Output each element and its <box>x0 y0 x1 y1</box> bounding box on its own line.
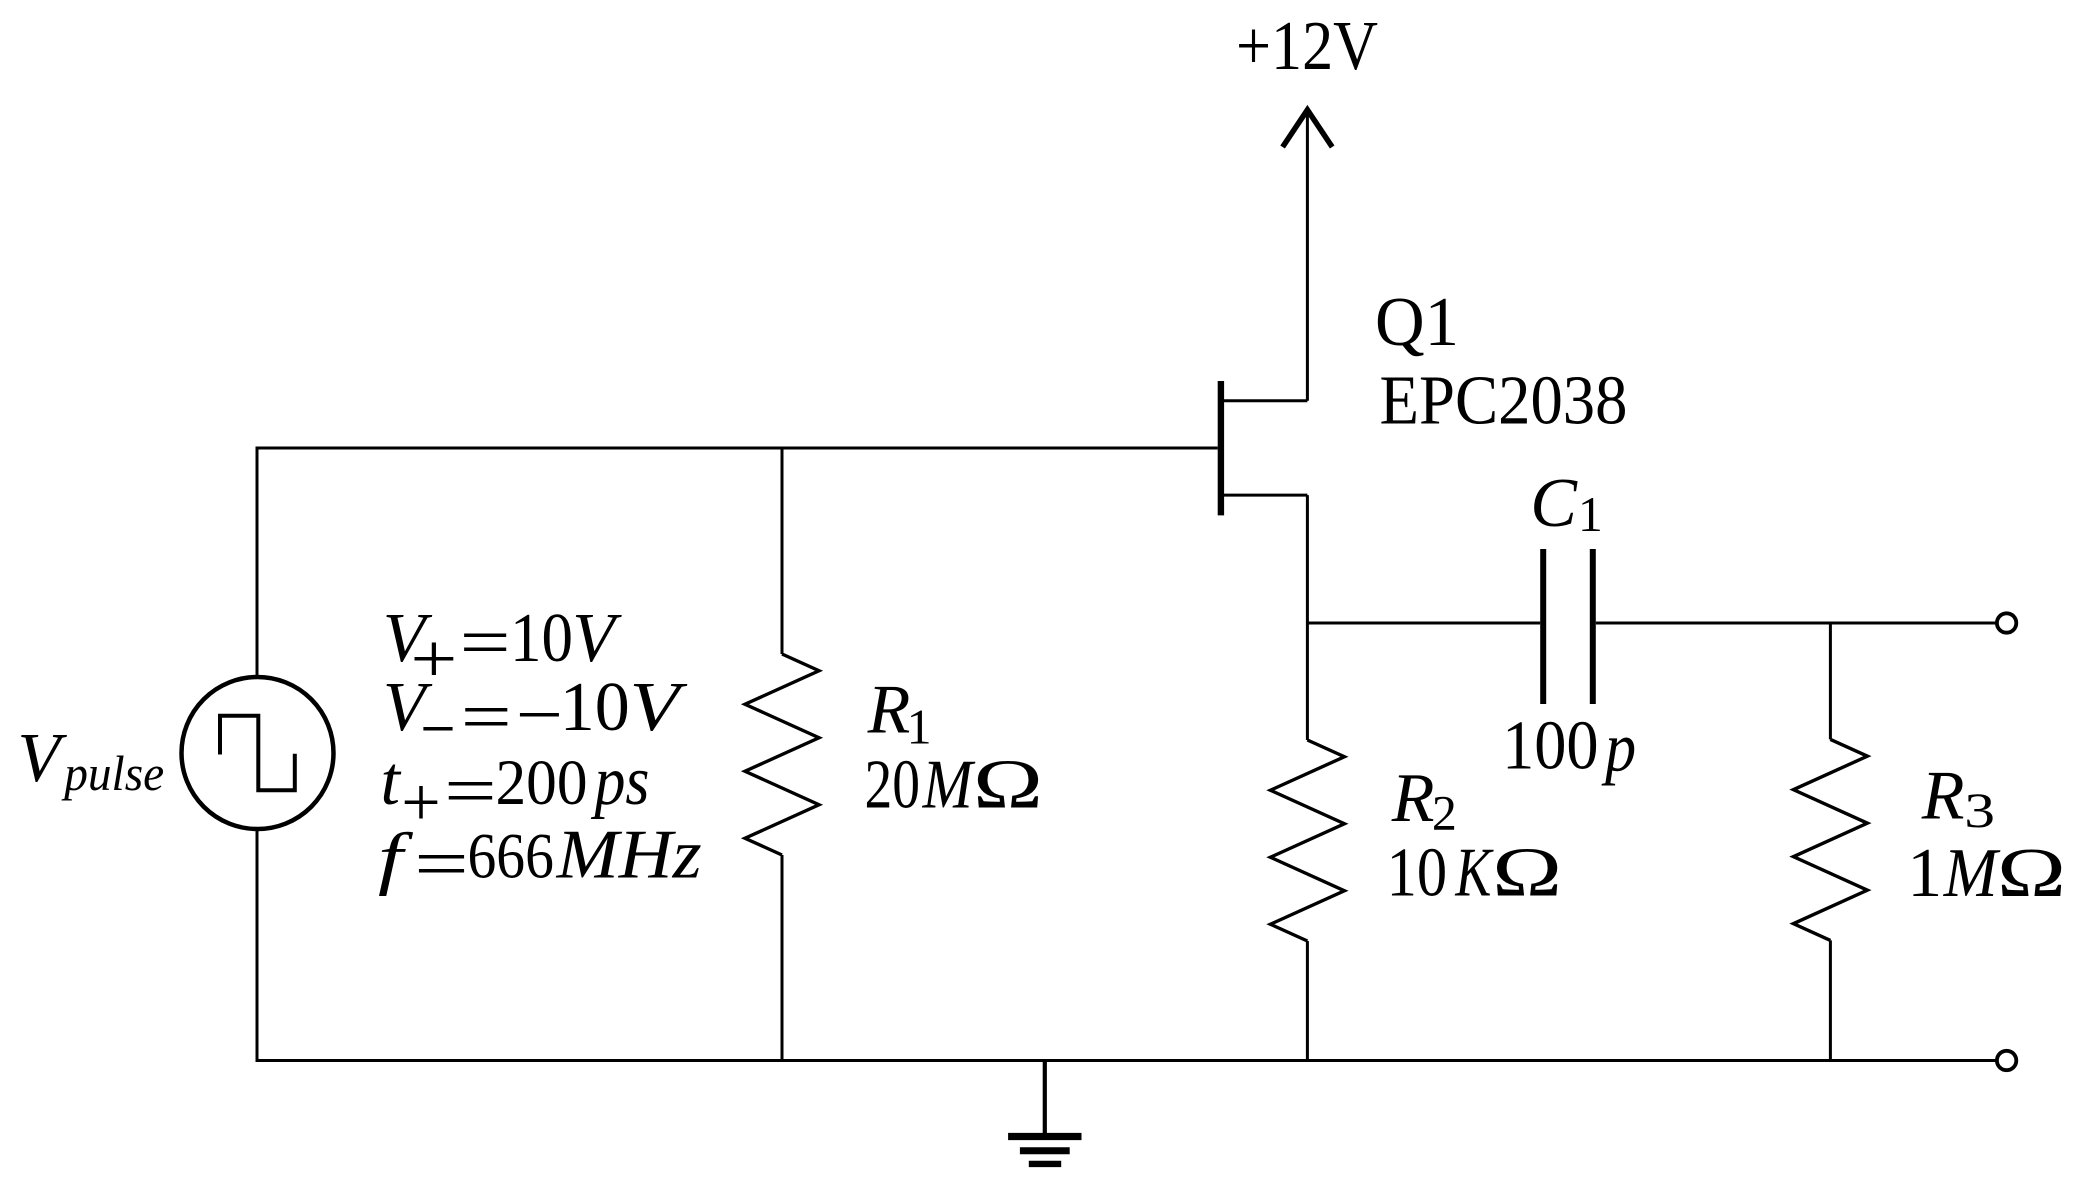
svg-text:=: = <box>414 826 469 903</box>
svg-text:MHz: MHz <box>556 817 702 894</box>
svg-text:3: 3 <box>1964 782 1995 838</box>
svg-text:V: V <box>572 600 622 677</box>
svg-text:Ω: Ω <box>1997 835 2066 912</box>
svg-text:+12V: +12V <box>1236 8 1378 85</box>
svg-text:1: 1 <box>1578 486 1603 542</box>
svg-text:R: R <box>1391 760 1435 837</box>
svg-text:200: 200 <box>496 747 588 819</box>
svg-text:=: = <box>461 679 512 756</box>
svg-text:10: 10 <box>1387 835 1448 912</box>
svg-text:C: C <box>1530 465 1578 542</box>
svg-text:=: = <box>444 753 497 830</box>
svg-text:p: p <box>1601 710 1636 787</box>
svg-text:100: 100 <box>1502 708 1599 785</box>
svg-text:EPC2038: EPC2038 <box>1380 363 1628 440</box>
svg-text:R: R <box>1921 758 1965 835</box>
svg-text:2: 2 <box>1432 785 1457 841</box>
svg-text:10: 10 <box>510 600 573 677</box>
svg-text:666: 666 <box>468 821 554 893</box>
svg-text:20: 20 <box>865 747 921 824</box>
svg-text:M: M <box>922 747 976 824</box>
svg-text:ps: ps <box>590 743 649 820</box>
svg-text:K: K <box>1455 835 1494 912</box>
svg-text:Ω: Ω <box>973 747 1043 824</box>
svg-text:10: 10 <box>560 669 630 746</box>
svg-text:Q1: Q1 <box>1375 284 1459 361</box>
svg-text:1: 1 <box>1907 835 1942 912</box>
svg-text:V: V <box>18 720 68 797</box>
svg-text:pulse: pulse <box>61 745 164 801</box>
svg-text:V: V <box>630 669 688 746</box>
svg-text:Ω: Ω <box>1492 835 1562 912</box>
svg-text:−: − <box>516 677 563 754</box>
svg-text:t: t <box>381 743 402 820</box>
svg-text:R: R <box>867 672 911 749</box>
svg-text:M: M <box>1943 835 2001 912</box>
svg-text:=: = <box>460 605 511 682</box>
